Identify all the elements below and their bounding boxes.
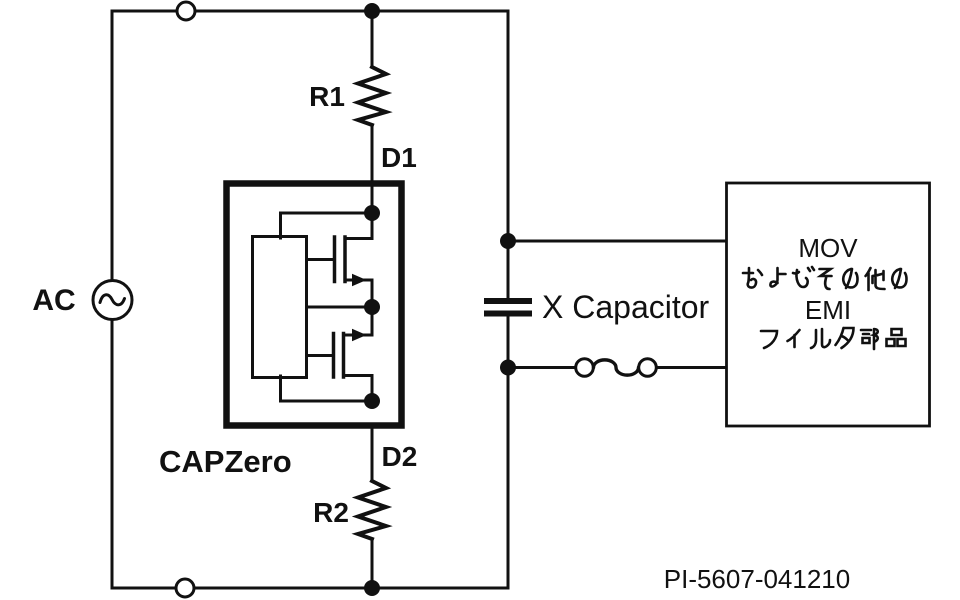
wire top rail: [112, 10, 508, 13]
svg-text:CAPZero: CAPZero: [159, 444, 292, 479]
wire Q2 gate lead: [307, 354, 333, 357]
control block U1: [253, 237, 307, 378]
fuse F1: [576, 359, 657, 377]
junction dot bottom rail: [364, 580, 380, 596]
wire control block top to node D1: [281, 213, 373, 238]
svg-text:R1: R1: [309, 81, 345, 112]
MOV/EMI filter box: [727, 183, 930, 426]
svg-text:EMI: EMI: [805, 295, 851, 325]
terminal (open circle) bottom: [176, 579, 194, 597]
transistor Q2 gate bar: [332, 334, 336, 378]
IC CAPZero package box: [227, 184, 402, 426]
wire IC to R2: [371, 425, 374, 481]
wire R1 to IC: [371, 125, 374, 213]
junction dot internal top: [364, 205, 380, 221]
wire control block mid to source node: [307, 306, 373, 309]
wire lower node to fuse: [508, 366, 576, 369]
svg-text:D1: D1: [381, 142, 417, 173]
wire right rail upper (to X capacitor): [507, 11, 510, 298]
wire bottom rail: [112, 587, 508, 590]
wire X cap node to MOV box: [508, 240, 727, 243]
svg-text:MOV: MOV: [798, 233, 858, 263]
wire Q2 source to bottom node: [344, 376, 373, 402]
svg-text:D2: D2: [382, 441, 418, 472]
wire control block bottom to node D2: [281, 376, 373, 401]
junction dot internal bottom: [364, 393, 380, 409]
junction dot top rail: [364, 3, 380, 19]
resistor R1: [358, 67, 386, 125]
wire Q1 gate lead: [307, 258, 334, 261]
wire Q2 drain from mid node: [344, 307, 373, 335]
transistor Q1 channel bar: [343, 237, 347, 282]
wire internal drain Q1: [345, 213, 372, 239]
wire left rail upper: [111, 11, 114, 281]
svg-text:PI-5607-041210: PI-5607-041210: [664, 564, 850, 594]
capacitor CX plate top: [487, 298, 529, 304]
wire Q1 source to mid node: [345, 280, 372, 307]
transistor Q1 source arrow: [352, 274, 367, 286]
svg-text:R2: R2: [313, 497, 349, 528]
junction dot X cap bottom: [500, 360, 516, 376]
label line2 japanese oyobi sonota no: [743, 267, 907, 290]
svg-text:X Capacitor: X Capacitor: [542, 289, 710, 325]
capacitor CX plate bottom: [487, 311, 529, 317]
label line4 japanese filter parts: [761, 328, 906, 349]
wire fuse to MOV box: [657, 366, 728, 369]
resistor R2: [358, 481, 386, 539]
svg-text:AC: AC: [32, 284, 75, 317]
wire left rail lower: [111, 320, 114, 588]
junction dot X cap top: [500, 233, 516, 249]
wire right rail lower (from X capacitor): [507, 317, 510, 589]
AC source V1: [93, 281, 132, 320]
transistor Q2 channel bar: [342, 334, 346, 378]
junction dot internal middle: [364, 299, 380, 315]
wire R1 branch top: [371, 11, 374, 67]
transistor Q1 gate bar: [333, 237, 337, 282]
wire R2 to bottom rail: [371, 539, 374, 588]
transistor Q2 arrow: [352, 329, 367, 341]
terminal (open circle) top: [177, 2, 195, 20]
